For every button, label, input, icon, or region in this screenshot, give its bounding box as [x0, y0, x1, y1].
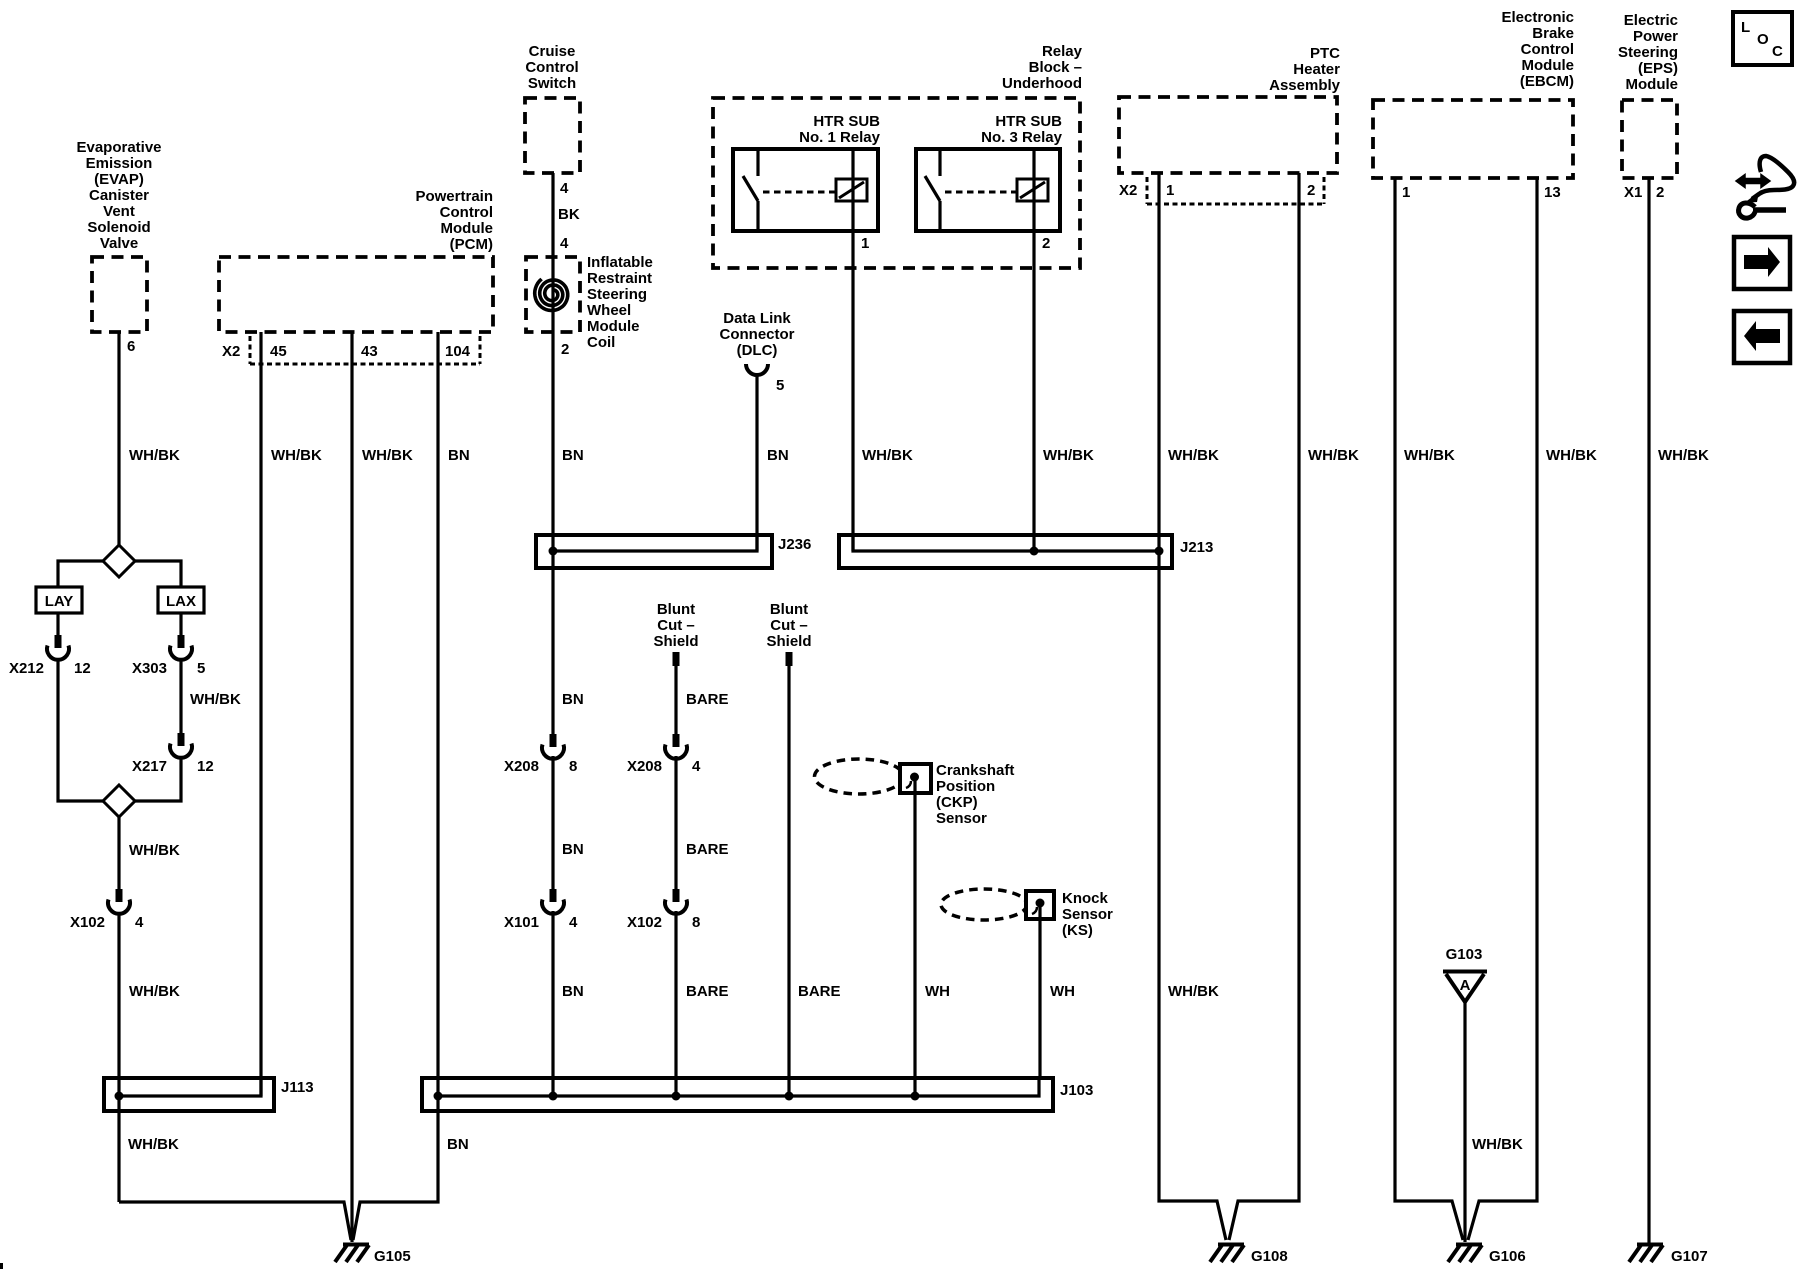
svg-text:X217: X217	[132, 758, 167, 775]
svg-text:L: L	[1741, 19, 1750, 36]
forward arrow box	[1734, 237, 1790, 289]
svg-text:WH: WH	[1050, 983, 1075, 1000]
svg-text:4: 4	[135, 914, 144, 931]
wire relay 1 pin 1 to J213	[851, 149, 854, 551]
PTC Heater Assembly box	[1119, 97, 1337, 173]
wire EPS pin 2 to G107	[1647, 178, 1650, 1243]
relay 1 coil element	[836, 179, 867, 201]
blunt cut terminal 2	[786, 652, 793, 666]
svg-text:X2: X2	[1119, 182, 1137, 199]
wire blunt cut 2 to J103	[787, 666, 790, 1096]
svg-text:4: 4	[692, 758, 701, 775]
svg-text:1: 1	[1166, 182, 1174, 199]
svg-text:J103: J103	[1060, 1082, 1093, 1099]
svg-text:G108: G108	[1251, 1248, 1288, 1265]
connector X101 pin 4	[542, 889, 564, 914]
splice J236	[536, 535, 811, 568]
svg-text:X2: X2	[222, 343, 240, 360]
svg-text:5: 5	[776, 377, 784, 394]
ground G108	[1210, 1245, 1244, 1263]
svg-text:C: C	[1772, 43, 1783, 60]
splice diamond top	[103, 545, 135, 577]
connector X212 pin 12	[47, 635, 69, 660]
wire X212 down and over to bottom diamond	[58, 659, 103, 801]
Crankshaft Position (CKP) Sensor ellipse	[815, 759, 904, 794]
svg-text:6: 6	[127, 338, 135, 355]
ground G107	[1629, 1245, 1663, 1263]
svg-text:WH: WH	[925, 983, 950, 1000]
wire relay 3 pin 2 to J213	[1032, 149, 1035, 551]
svg-text:12: 12	[74, 660, 91, 677]
wire LAX to X303	[179, 613, 182, 636]
svg-text:WH/BK: WH/BK	[129, 842, 180, 859]
svg-text:WH/BK: WH/BK	[1168, 983, 1219, 1000]
wire LAY to X212	[56, 613, 59, 636]
svg-text:2: 2	[561, 341, 569, 358]
svg-text:X208: X208	[627, 758, 662, 775]
EPS Module box	[1622, 100, 1677, 178]
svg-text:WH/BK: WH/BK	[1168, 447, 1219, 464]
svg-text:12: 12	[197, 758, 214, 775]
ground reference G103 triangle	[1443, 972, 1487, 1003]
svg-text:X101: X101	[504, 914, 539, 931]
jump/continuation icon	[1736, 156, 1794, 218]
svg-text:X212: X212	[9, 660, 44, 677]
svg-text:BN: BN	[562, 983, 584, 1000]
svg-text:WH/BK: WH/BK	[1658, 447, 1709, 464]
svg-text:WH/BK: WH/BK	[1546, 447, 1597, 464]
Cruise Control Switch box	[525, 98, 580, 173]
svg-text:BluntCut –Shield: BluntCut –Shield	[766, 601, 811, 650]
wire PCM pin 45 to J113	[259, 332, 262, 1096]
PCM X2 connector strip	[250, 336, 480, 364]
svg-text:5: 5	[197, 660, 205, 677]
svg-text:J213: J213	[1180, 539, 1213, 556]
connector X303 pin 5	[170, 635, 192, 660]
svg-text:1: 1	[861, 235, 869, 252]
svg-text:13: 13	[1544, 184, 1561, 201]
relay 3 coil dashed actuator line	[945, 191, 1016, 194]
Inflatable Restraint Steering Wheel Module Coil box	[526, 257, 580, 332]
svg-text:WH/BK: WH/BK	[128, 1136, 179, 1153]
wire G103 to G106	[1463, 1002, 1466, 1242]
connector X208 pin 8	[542, 734, 564, 759]
wire X303 to X217	[179, 659, 182, 734]
svg-text:EvaporativeEmission(EVAP)Canis: EvaporativeEmission(EVAP)CanisterVentSol…	[76, 139, 161, 252]
wire X102 down through J113	[117, 913, 120, 1202]
ground G106	[1448, 1245, 1482, 1263]
relay 1 coil dashed actuator line	[763, 191, 835, 194]
svg-text:BN: BN	[562, 447, 584, 464]
svg-text:1: 1	[1402, 184, 1410, 201]
svg-text:104: 104	[445, 343, 471, 360]
wire diamond to LAX	[135, 561, 181, 587]
wire X217 down and over to bottom diamond	[135, 757, 181, 801]
svg-text:BARE: BARE	[686, 841, 729, 858]
svg-text:CruiseControlSwitch: CruiseControlSwitch	[525, 43, 578, 92]
wire PCM pin 104 through J103 to G105	[353, 332, 438, 1240]
svg-text:2: 2	[1042, 235, 1050, 252]
svg-text:BN: BN	[562, 691, 584, 708]
wire PCM pin 43 to G105	[350, 332, 353, 1242]
svg-text:43: 43	[361, 343, 378, 360]
wire cruise switch through coil to J236 and J103	[551, 173, 554, 1096]
svg-text:A: A	[1460, 977, 1471, 994]
svg-text:LAY: LAY	[45, 593, 74, 610]
relay HTR SUB No.1 box	[733, 149, 878, 231]
EBCM box	[1373, 100, 1573, 178]
svg-text:X1: X1	[1624, 184, 1642, 201]
wire blunt cut 1 to J103	[674, 666, 677, 1096]
splice J103	[422, 1078, 1093, 1111]
relay 3 coil element	[1017, 179, 1048, 201]
svg-text:BN: BN	[448, 447, 470, 464]
PTC X2 connector strip	[1147, 177, 1324, 204]
wire diamond to LAY	[58, 561, 103, 587]
relay 3 switch contact	[925, 149, 940, 231]
svg-text:45: 45	[270, 343, 287, 360]
DLC connector socket symbol	[746, 364, 768, 375]
svg-text:BluntCut –Shield: BluntCut –Shield	[653, 601, 698, 650]
wire bottom run to G105	[119, 1202, 351, 1240]
svg-text:BN: BN	[767, 447, 789, 464]
svg-text:WH/BK: WH/BK	[362, 447, 413, 464]
svg-text:X102: X102	[70, 914, 105, 931]
svg-text:WH/BK: WH/BK	[129, 447, 180, 464]
svg-text:WH/BK: WH/BK	[129, 983, 180, 1000]
wire Knock sensor to J103	[1038, 903, 1041, 1078]
connector X217 pin 12	[170, 733, 192, 758]
svg-text:WH/BK: WH/BK	[1043, 447, 1094, 464]
LAY component box	[36, 587, 82, 613]
wire CKP sensor to J103	[913, 777, 916, 1096]
connector X102 pin 8	[665, 889, 687, 914]
connector X208 pin 4	[665, 734, 687, 759]
svg-text:ElectricPowerSteering(EPS)Modu: ElectricPowerSteering(EPS)Module	[1618, 12, 1678, 93]
svg-text:4: 4	[560, 235, 569, 252]
svg-text:J236: J236	[778, 536, 811, 553]
Knock Sensor (KS) ellipse	[941, 889, 1027, 920]
Crankshaft Position (CKP) Sensor box	[900, 764, 931, 793]
svg-text:WH/BK: WH/BK	[190, 691, 241, 708]
svg-text:BN: BN	[447, 1136, 469, 1153]
svg-text:2: 2	[1656, 184, 1664, 201]
svg-text:G107: G107	[1671, 1248, 1708, 1265]
wire EBCM pin 13 to G106	[1468, 178, 1537, 1240]
wire PTC pin 1 through J213 to G108	[1159, 173, 1226, 1240]
svg-text:8: 8	[692, 914, 700, 931]
connector X102 pin 4	[108, 889, 130, 914]
svg-text:G103: G103	[1446, 946, 1483, 963]
svg-text:WH/BK: WH/BK	[1308, 447, 1359, 464]
svg-text:G105: G105	[374, 1248, 411, 1265]
svg-text:WH/BK: WH/BK	[1472, 1136, 1523, 1153]
page corner mark	[0, 1263, 3, 1269]
EVAP Canister Vent Solenoid Valve box	[92, 257, 147, 332]
svg-text:BARE: BARE	[686, 691, 729, 708]
svg-text:X208: X208	[504, 758, 539, 775]
Knock Sensor (KS) box	[1026, 891, 1054, 919]
svg-text:LAX: LAX	[166, 593, 196, 610]
svg-text:X303: X303	[132, 660, 167, 677]
svg-text:4: 4	[569, 914, 578, 931]
svg-text:WH/BK: WH/BK	[862, 447, 913, 464]
svg-text:J113: J113	[281, 1079, 314, 1096]
Relay Block - Underhood box	[713, 98, 1080, 268]
svg-text:X102: X102	[627, 914, 662, 931]
svg-text:BK: BK	[558, 206, 580, 223]
coil spiral symbol	[535, 279, 568, 311]
relay 1 switch contact	[743, 149, 758, 231]
svg-text:O: O	[1757, 31, 1769, 48]
splice diamond bottom	[103, 785, 135, 817]
svg-text:WH/BK: WH/BK	[1404, 447, 1455, 464]
svg-text:BARE: BARE	[798, 983, 841, 1000]
svg-text:4: 4	[560, 180, 569, 197]
wire PTC pin 2 to G108	[1229, 173, 1299, 1240]
svg-text:8: 8	[569, 758, 577, 775]
splice J113	[104, 1078, 314, 1111]
LAX component box	[158, 587, 204, 613]
wire EVAP pin 6 down to splice diamond	[117, 332, 120, 547]
svg-text:2: 2	[1307, 182, 1315, 199]
splice J213	[839, 535, 1213, 568]
svg-text:G106: G106	[1489, 1248, 1526, 1265]
back arrow box	[1734, 311, 1790, 363]
relay HTR SUB No.3 box	[916, 149, 1060, 231]
svg-text:BARE: BARE	[686, 983, 729, 1000]
svg-text:WH/BK: WH/BK	[271, 447, 322, 464]
blunt cut terminal 1	[673, 652, 680, 666]
svg-text:BN: BN	[562, 841, 584, 858]
wire DLC pin 5 to J236	[755, 375, 758, 551]
wire diamond down to X102	[117, 817, 120, 890]
LOC reference box	[1733, 12, 1792, 65]
wire EBCM pin 1 to G106	[1395, 178, 1463, 1240]
ground G105	[335, 1245, 369, 1263]
PCM box	[219, 257, 493, 332]
